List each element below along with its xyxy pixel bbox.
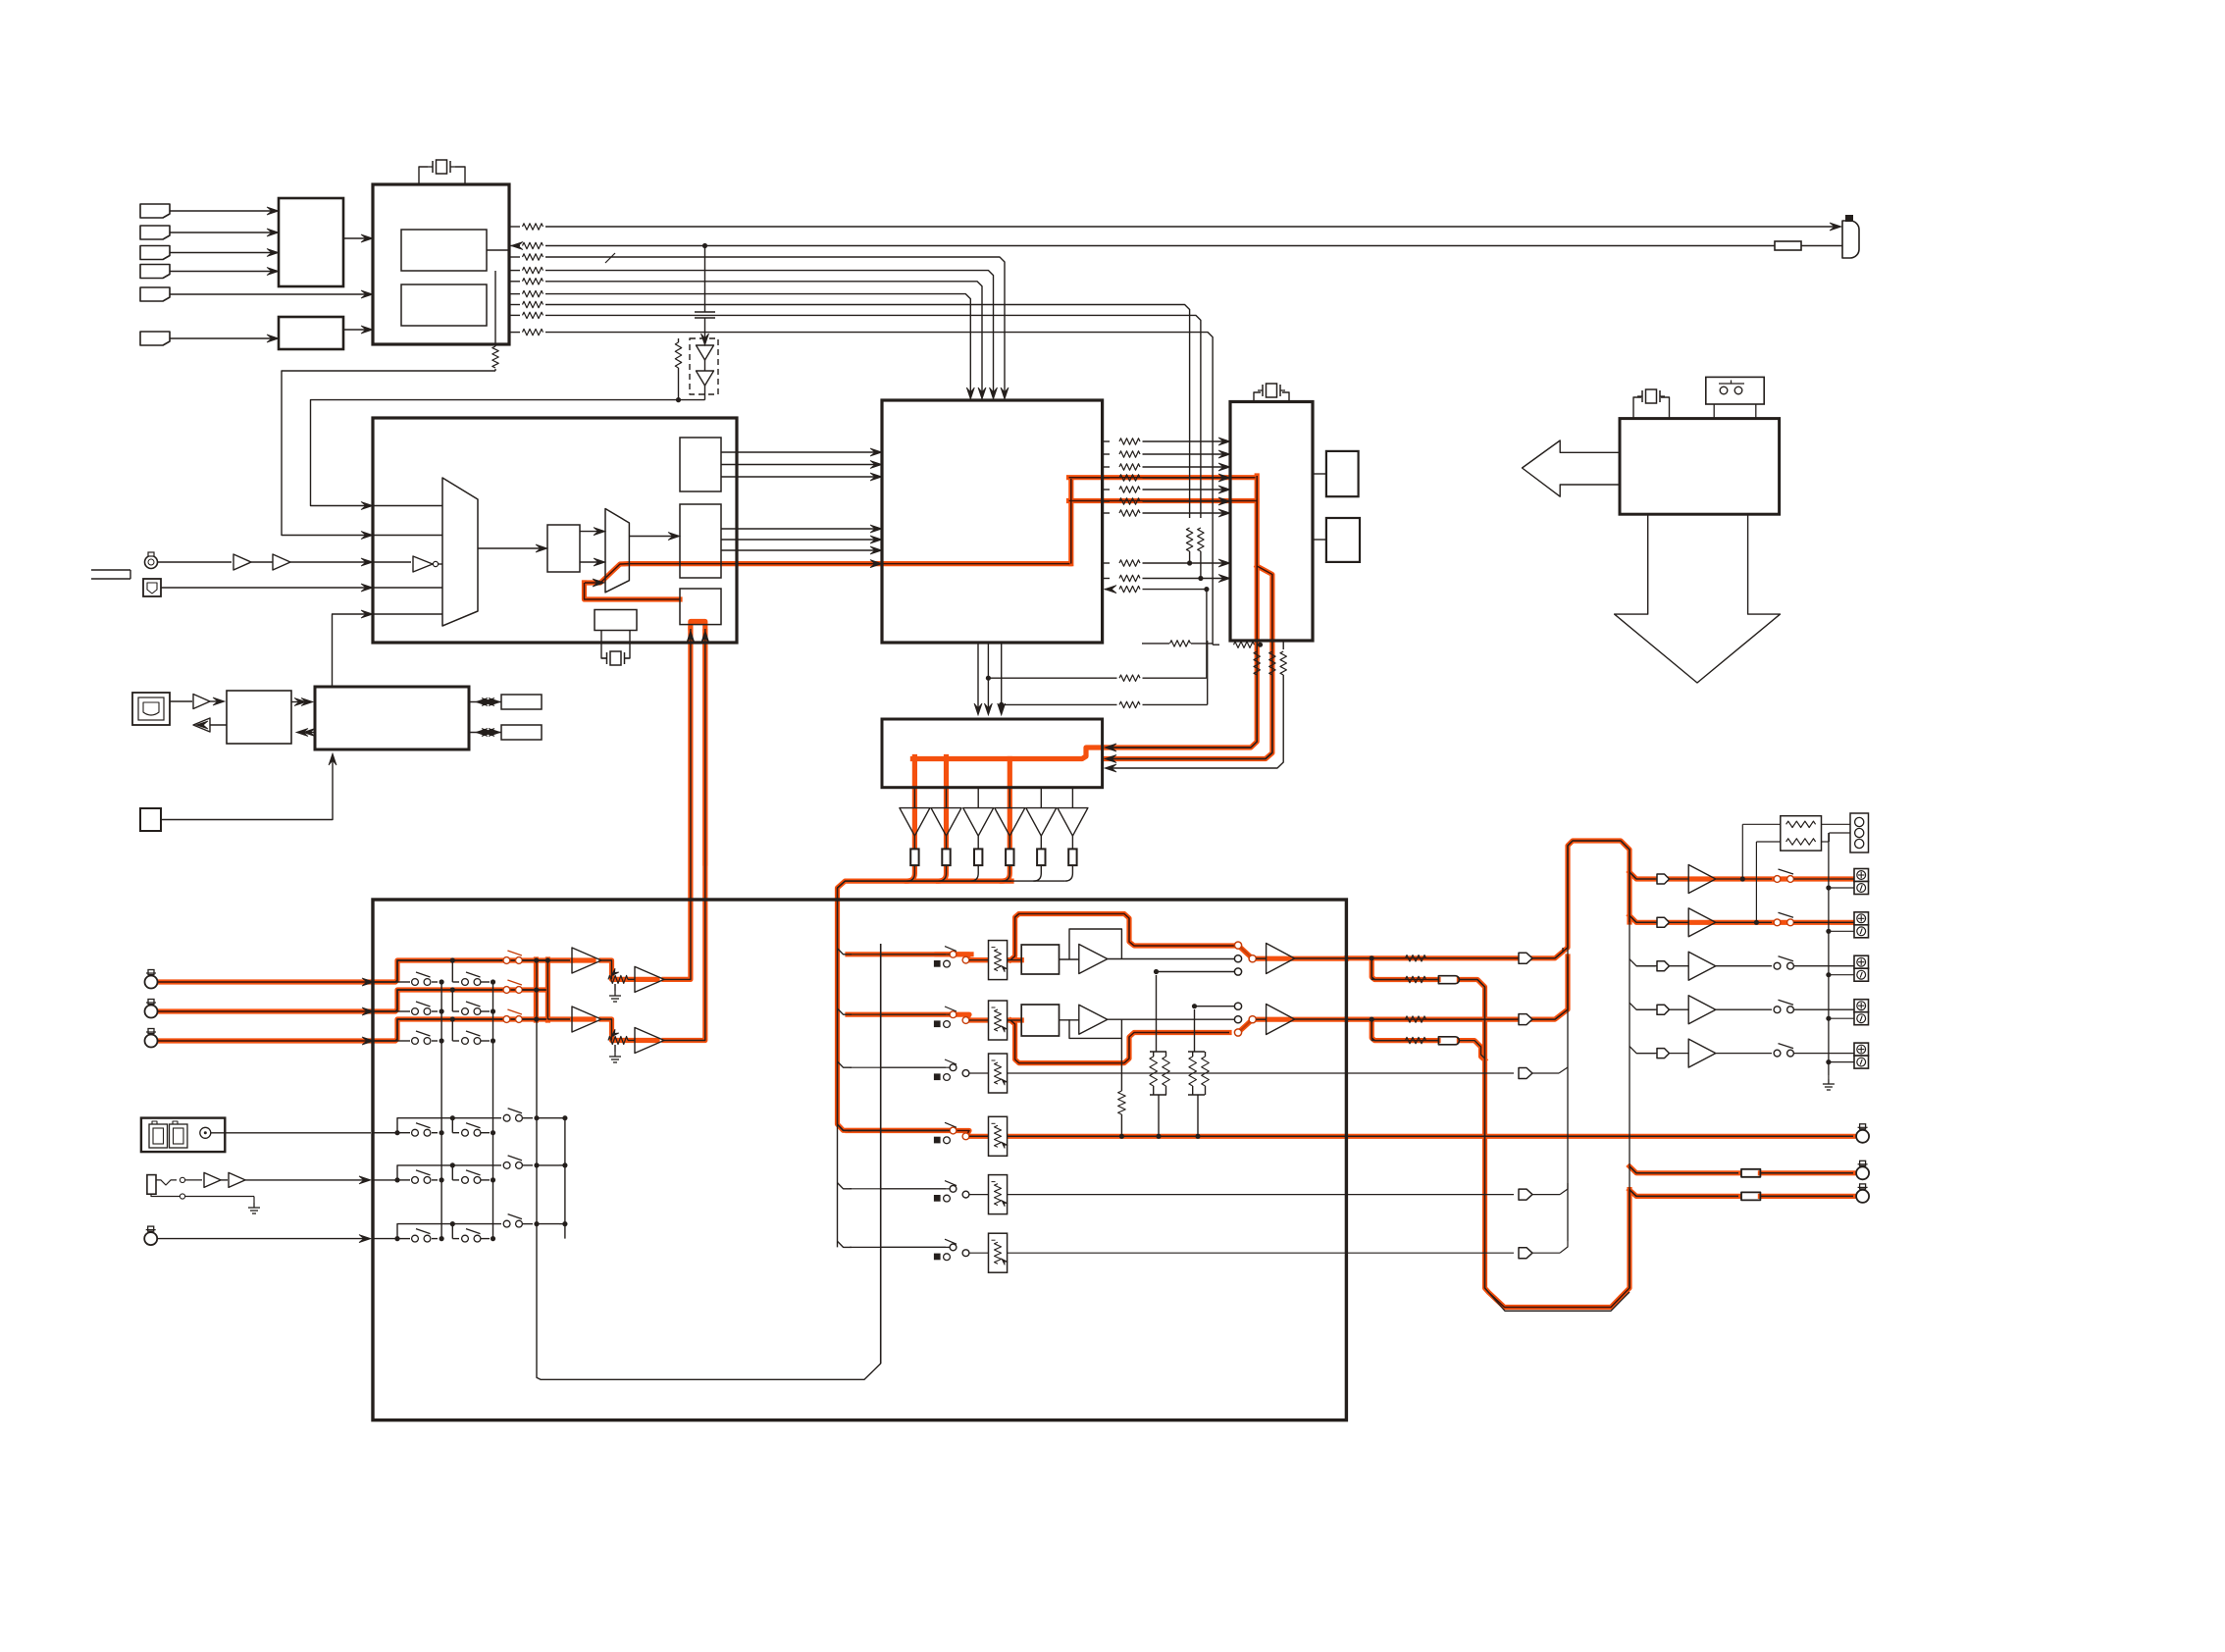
auxrow1 switch col2 bbox=[462, 1129, 469, 1136]
connector tag CN3 bbox=[140, 246, 170, 260]
impedance tap L bbox=[1741, 824, 1743, 879]
HP R servo block bbox=[1008, 1019, 1022, 1021]
orange rowB ferrite tail bbox=[1459, 1041, 1484, 1060]
speaker row 3 bbox=[1636, 965, 1657, 967]
speaker terminal 1 bbox=[1854, 869, 1869, 882]
orange in row1 bbox=[158, 960, 572, 982]
orange spk busA bbox=[534, 959, 539, 1020]
ctrl side block 2 bbox=[501, 725, 542, 740]
orange preamp L bbox=[548, 957, 594, 962]
orange preamp R bbox=[547, 1016, 594, 1021]
bus line L2 bbox=[545, 245, 1775, 247]
attenuator row 1 switch bbox=[881, 954, 946, 955]
DAC crystal X2 bbox=[1258, 384, 1285, 397]
impedance resistor box bbox=[1781, 816, 1822, 851]
audio selector IC box bbox=[373, 418, 737, 643]
record bus corners bbox=[838, 949, 853, 955]
MCU inner register B bbox=[401, 284, 487, 326]
row1 dots bbox=[440, 979, 444, 984]
headphone send wires bbox=[664, 629, 691, 979]
speaker minus wire 2 bbox=[1829, 930, 1854, 932]
rec out jack L bbox=[1856, 1124, 1869, 1143]
diode D1 bbox=[697, 345, 714, 360]
orange pot R bbox=[601, 1019, 657, 1041]
bus line L4 bbox=[545, 271, 994, 396]
power down arrow bbox=[1615, 514, 1781, 683]
speaker select terminal bbox=[1850, 813, 1869, 852]
row A branch bbox=[1371, 958, 1401, 980]
orange pot L bbox=[601, 960, 657, 979]
auxrow2 tail bbox=[537, 1164, 559, 1166]
servo-mech wires bbox=[291, 701, 301, 703]
optical in TOSLINK bbox=[143, 579, 161, 596]
attenuator row 1 box bbox=[989, 941, 1008, 980]
speaker driver triangles bbox=[913, 788, 915, 808]
monitor wire bbox=[211, 1132, 371, 1134]
orange row2 lever bbox=[1238, 1019, 1346, 1032]
speaker minus wire 4 bbox=[1829, 1017, 1854, 1019]
speaker terminal 5 bbox=[1854, 1043, 1869, 1056]
orange 3D loop bbox=[585, 583, 681, 599]
orange rec L tail bbox=[1760, 1170, 1853, 1175]
impedance tap R bbox=[1755, 842, 1757, 923]
DSP pre block bbox=[547, 525, 580, 572]
sub box bbox=[279, 317, 343, 349]
analog in jack 1 bbox=[145, 970, 158, 989]
aux row5 tail bbox=[1008, 1194, 1514, 1196]
orange fuse tail 2 bbox=[939, 865, 947, 881]
diode pack dashed box bbox=[690, 338, 718, 394]
DSP aux line B bbox=[1103, 578, 1110, 580]
preamp SP R bbox=[547, 1018, 570, 1020]
orange path DAC R down bbox=[1105, 566, 1272, 759]
servo box bbox=[227, 691, 291, 744]
connector tag CN4 bbox=[140, 265, 170, 279]
mech buffers bbox=[170, 700, 192, 702]
input row 1 jog bbox=[373, 960, 545, 982]
wire from mech controller bbox=[333, 614, 372, 687]
crystal X1 bbox=[428, 160, 455, 174]
auxrow3 col2 feed bbox=[451, 1224, 453, 1239]
mech icon bbox=[132, 693, 170, 725]
orange path DAC L down bbox=[1105, 476, 1257, 748]
bus line L1 bbox=[545, 226, 1838, 228]
DAC feedback wire bbox=[1207, 641, 1209, 704]
row2 switch col1 bbox=[412, 1008, 419, 1015]
power crystal bbox=[1637, 389, 1665, 403]
HP R amp out wire bbox=[1108, 1018, 1235, 1020]
dark wire overlays bbox=[158, 476, 1853, 1308]
HP L servo block bbox=[1008, 959, 1022, 961]
row2 col2 feed bbox=[451, 990, 453, 1011]
buffer A1 bbox=[233, 554, 251, 570]
mux out wire bbox=[478, 547, 544, 549]
DSP aux line A bbox=[1103, 562, 1110, 564]
auxrow2 switch col1 bbox=[412, 1177, 419, 1184]
HP R switch bbox=[1234, 1003, 1241, 1009]
wire optical to selector bbox=[161, 587, 371, 589]
aux row 2 jog bbox=[373, 1165, 501, 1180]
orange path DAC R in bbox=[1069, 498, 1258, 503]
auxrow2 col2 feed bbox=[451, 1165, 453, 1180]
orange rec stub R bbox=[1630, 1190, 1738, 1196]
orange rowB branch bbox=[1371, 1019, 1438, 1041]
auxrow2 switch col3 bbox=[503, 1162, 510, 1169]
orange HP send L bbox=[664, 629, 691, 979]
matrix bus 2 bbox=[492, 982, 494, 1239]
wire keybox to MCU bbox=[343, 237, 371, 239]
connector tag CN6 bbox=[140, 332, 170, 345]
analog in jack 2 bbox=[145, 1000, 158, 1018]
orange in row3 bbox=[158, 1019, 546, 1041]
HP L amp2 bbox=[1256, 957, 1266, 959]
wire into selector bbox=[290, 561, 371, 563]
L8 pull resistor bbox=[1198, 528, 1204, 551]
orange row1 lever bbox=[1238, 946, 1346, 959]
auxrow3 tail bbox=[537, 1223, 559, 1225]
selector rect C bbox=[680, 589, 721, 625]
matrix bus 3 long bbox=[537, 944, 881, 1379]
3D mux trapezoid bbox=[605, 509, 629, 593]
volume pot knob bbox=[145, 556, 158, 569]
HP R NC wire bbox=[1195, 1006, 1235, 1007]
minus bus ground bbox=[1828, 1075, 1830, 1079]
fuse resistors bbox=[910, 849, 918, 865]
power crystal wiring bbox=[1633, 397, 1641, 419]
DAC out L wire bbox=[1256, 641, 1258, 649]
driver bus corner bbox=[837, 888, 839, 900]
orange row2 att line bbox=[848, 1014, 1021, 1020]
attenuator row 4 switch bbox=[881, 1130, 946, 1132]
row3 col2 feed bbox=[451, 1019, 453, 1041]
orange drv stub 2 bbox=[944, 757, 949, 850]
auxrow3 switch col3 bbox=[503, 1220, 510, 1227]
orange in row2 bbox=[158, 990, 546, 1011]
attenuator row 3 switch bbox=[881, 1066, 946, 1068]
arch vertical bbox=[1568, 841, 1630, 1288]
row2 switch col2 bbox=[462, 1008, 469, 1015]
rec out line wire bbox=[1008, 1135, 1853, 1137]
wires rectA to DSP bbox=[721, 451, 879, 453]
attenuator row 2 switch bbox=[881, 1013, 946, 1015]
orange path SW jog bbox=[912, 748, 1105, 759]
capacitor C1 bbox=[695, 311, 715, 313]
U loop bottom bbox=[1485, 1288, 1630, 1311]
matrix bus 4 bbox=[564, 1118, 566, 1239]
wire cap branch bbox=[704, 246, 706, 313]
row1 switch col1 bbox=[412, 979, 419, 986]
wires tags to key-matrix box bbox=[170, 210, 277, 212]
DSP IC box bbox=[882, 400, 1103, 643]
DAC out R wire bbox=[1271, 641, 1273, 649]
tray wire bbox=[161, 756, 333, 820]
connector tag CN1 bbox=[140, 204, 170, 218]
L9 series resistor bbox=[1213, 644, 1219, 645]
row1 switch col3 (orange) bbox=[499, 951, 533, 963]
rec feed chamfers bbox=[1630, 1166, 1738, 1173]
MCU inner register A bbox=[401, 230, 487, 271]
orange row1 sw bbox=[937, 955, 989, 960]
DAC side block 2 bbox=[1313, 539, 1326, 541]
tray switch bbox=[140, 808, 161, 831]
row1 switch col2 bbox=[462, 979, 469, 986]
connector tag CN2 bbox=[140, 226, 170, 239]
orange rowB out bbox=[1346, 956, 1568, 1019]
SPL volume pot bbox=[601, 960, 612, 979]
DAC crystal wiring bbox=[1254, 392, 1261, 402]
remote connector bbox=[1842, 221, 1859, 258]
L2 ferrite bead bbox=[1775, 241, 1801, 250]
DAC out mute wire bbox=[1282, 641, 1284, 649]
mech controller box bbox=[315, 687, 469, 749]
bus line L9 bbox=[545, 333, 1213, 645]
input mux trapezoid bbox=[442, 478, 478, 626]
orange path DSP riser bbox=[1068, 479, 1073, 564]
aux resistor wire bbox=[1142, 643, 1169, 645]
orange rowA ferrite tail bbox=[1459, 980, 1630, 1308]
EEPROM crystal bbox=[601, 631, 606, 659]
power switch box bbox=[1706, 377, 1764, 404]
auxrow2 dots bbox=[394, 1177, 399, 1182]
wire subbox to MCU bbox=[343, 329, 371, 331]
DAC IC box bbox=[1230, 402, 1313, 642]
MCU inner wire bbox=[487, 249, 509, 251]
MCU system control IC bbox=[373, 184, 509, 344]
orange row1 bypass bbox=[1010, 914, 1235, 960]
HP L feedback loop bbox=[1069, 929, 1121, 959]
driver sum wire bbox=[845, 880, 1064, 882]
aux row 3 jog bbox=[373, 1224, 501, 1239]
monitor bus vertical bbox=[880, 944, 882, 1364]
speaker feed chamfers bbox=[1630, 872, 1655, 879]
HP R feedback loop bbox=[1069, 1019, 1121, 1038]
HP L switch bbox=[1234, 942, 1241, 949]
rec out jack R bbox=[1856, 1161, 1869, 1179]
record bus vertical bbox=[837, 900, 839, 1247]
orange spk row1 bbox=[1630, 872, 1854, 879]
row1 col2 feed bbox=[451, 960, 453, 982]
impedance out wires bbox=[1822, 823, 1851, 825]
row3 switch col1 bbox=[412, 1038, 419, 1045]
attenuator row 5 box bbox=[989, 1175, 1008, 1214]
crystal X1 wiring bbox=[419, 167, 428, 184]
speaker bus (orange) bbox=[546, 960, 548, 1019]
speaker row 1 bbox=[1636, 878, 1657, 880]
matrix bus 1 bbox=[440, 982, 442, 1239]
orange fuse tail 1 bbox=[906, 865, 914, 881]
orange 3D U bbox=[691, 622, 705, 629]
analog in jack 4 bbox=[144, 1226, 157, 1245]
connector tag CN5 bbox=[140, 287, 170, 301]
power amp block box bbox=[373, 900, 1346, 1420]
row A main bbox=[1346, 957, 1401, 959]
wire tag6 to box bbox=[170, 337, 277, 339]
orange rowA out bbox=[1346, 841, 1630, 958]
HP load resistors L bbox=[1156, 975, 1158, 1052]
mic sleeve wire bbox=[151, 1194, 180, 1196]
DSP to SW wires bbox=[977, 643, 979, 712]
orange drv stub 4 bbox=[1008, 759, 1012, 850]
3D mux out wire bbox=[630, 536, 677, 538]
jack4 wire bbox=[158, 1238, 370, 1240]
selector rect B bbox=[680, 504, 721, 578]
wire pot to buffers bbox=[158, 561, 232, 563]
AC arrow left bbox=[1523, 440, 1621, 496]
auxrow3 switch col1 bbox=[412, 1235, 419, 1242]
wire lineC loop bbox=[1206, 590, 1208, 679]
wires rectB to DSP bbox=[721, 528, 879, 530]
arrows into key box bbox=[267, 207, 279, 215]
headphone plug icon bbox=[91, 569, 130, 571]
wire tag5 to MCU bbox=[170, 293, 371, 295]
orange rec bus bbox=[838, 881, 1012, 1130]
amp SP R2 bbox=[635, 1028, 664, 1054]
diode return wire bbox=[311, 400, 705, 506]
speaker terminal 2 bbox=[1854, 912, 1869, 925]
bus line L5 bbox=[545, 282, 982, 396]
mic buffers bbox=[204, 1172, 221, 1187]
row3 switch col2 bbox=[462, 1038, 469, 1045]
power supply box bbox=[1620, 419, 1780, 515]
orange signal highlight layer bbox=[158, 476, 1854, 1308]
auxrow1 switch col1 bbox=[412, 1129, 419, 1136]
speaker minus wire 5 bbox=[1829, 1061, 1854, 1063]
monitor box bbox=[141, 1118, 225, 1153]
bus resistors R-array bbox=[523, 224, 543, 230]
rec out ferrites bbox=[1741, 1169, 1760, 1177]
HP load resistors R bbox=[1194, 1009, 1196, 1052]
orange path selector to DSP bbox=[585, 564, 1070, 583]
buffer A2 bbox=[273, 554, 290, 570]
auxrow1 dots bbox=[394, 1130, 399, 1135]
L7 pull resistor bbox=[1186, 528, 1192, 551]
HP R amp2 bbox=[1256, 1018, 1266, 1020]
analog in jack 3 bbox=[145, 1029, 158, 1048]
aux row3 tail bbox=[1008, 1072, 1514, 1074]
row B main bbox=[1346, 1018, 1401, 1020]
EEPROM block bbox=[595, 610, 637, 631]
attenuator row 5 switch bbox=[881, 1188, 946, 1190]
DSP aux line C bbox=[1105, 586, 1116, 594]
junction L2 bbox=[702, 243, 707, 248]
auxrow1 col2 feed bbox=[451, 1118, 453, 1133]
aux row 1 jog bbox=[373, 1118, 501, 1133]
rec out wires bbox=[1760, 1172, 1853, 1174]
3D loop arrow bbox=[593, 579, 604, 587]
orange row2 bypass bbox=[1010, 1020, 1229, 1063]
DSP-DAC data lines bbox=[1103, 440, 1110, 442]
inverter U2 bbox=[373, 561, 411, 563]
preamp SP L bbox=[537, 959, 570, 961]
orange row4 line bbox=[848, 1131, 1853, 1137]
row2 switch col3 (orange) bbox=[499, 980, 533, 993]
attenuator row 2 box bbox=[989, 1001, 1008, 1040]
orange spk row2 bbox=[1630, 915, 1854, 922]
auxrow2 switch col2 bbox=[462, 1177, 469, 1184]
speaker minus wire 1 bbox=[1829, 887, 1854, 889]
attenuator row 6 box bbox=[989, 1233, 1008, 1272]
attenuator row 3 box bbox=[989, 1054, 1008, 1093]
orange HP ret R bbox=[702, 632, 707, 863]
rec tap resistor bbox=[1120, 1038, 1122, 1091]
speaker row 2 bbox=[1636, 921, 1657, 923]
key matrix box bbox=[279, 198, 343, 286]
diode D2 bbox=[697, 371, 714, 386]
speaker minus wire 3 bbox=[1829, 974, 1854, 976]
muting switch IC box bbox=[882, 719, 1103, 788]
DAC side block 1 bbox=[1313, 473, 1326, 475]
ctrl side block 1 bbox=[501, 695, 542, 709]
orange spk bus bbox=[545, 959, 550, 1020]
selector rect A bbox=[680, 438, 721, 491]
mic jack bbox=[147, 1175, 156, 1195]
bus line L3 bbox=[545, 257, 1005, 396]
HP L amp bbox=[1079, 945, 1108, 974]
orange fuse tail 4 bbox=[1002, 865, 1009, 881]
orange drv stub 1 bbox=[912, 757, 917, 850]
row B branch bbox=[1371, 1019, 1401, 1041]
bus line L6 bbox=[545, 294, 970, 396]
selector input wires bbox=[373, 505, 442, 507]
MCU ctrl wire bbox=[494, 369, 496, 371]
speaker row 5 bbox=[1636, 1053, 1657, 1055]
wires pre to 3D mux bbox=[580, 531, 602, 533]
record row stubs bbox=[850, 954, 950, 955]
row3 dots bbox=[440, 1038, 444, 1043]
resistor R diode bbox=[678, 338, 680, 342]
speaker terminal 3 bbox=[1854, 955, 1869, 968]
minus bus bbox=[1828, 833, 1830, 1075]
L2 tail bbox=[1801, 245, 1842, 247]
orange rec stub L bbox=[1630, 1166, 1738, 1173]
HP R amp bbox=[1079, 1005, 1108, 1034]
input row 2 jog bbox=[373, 990, 545, 1011]
attenuator row 4 box bbox=[989, 1116, 1008, 1156]
auxrow1 switch col3 bbox=[503, 1114, 510, 1121]
auxrow3 dots bbox=[394, 1236, 399, 1241]
bus line L7 bbox=[545, 305, 1190, 519]
HP L NC wire bbox=[1157, 971, 1235, 973]
orange HP send R bbox=[664, 632, 705, 1041]
aux row6 tail bbox=[1008, 1252, 1514, 1254]
row2 dots bbox=[440, 1008, 444, 1013]
amp SP L2 bbox=[635, 966, 664, 992]
input row 3 jog bbox=[373, 1019, 545, 1041]
arrow into diode pack bbox=[701, 334, 709, 345]
rec out jack 3 bbox=[1856, 1184, 1869, 1203]
orange rec R tail bbox=[1760, 1194, 1853, 1199]
orange path DAC L in bbox=[1069, 475, 1256, 480]
fuse tails bbox=[906, 865, 914, 881]
auxrow1 tail bbox=[537, 1117, 559, 1119]
attenuator row 6 switch bbox=[881, 1246, 946, 1248]
HP L amp out wire bbox=[1108, 958, 1235, 960]
orange rowA branch bbox=[1371, 958, 1438, 980]
speaker row 4 bbox=[1636, 1008, 1657, 1010]
SPR volume pot bbox=[601, 1019, 612, 1041]
row3 switch col3 (orange) bbox=[499, 1009, 533, 1022]
bus line L8 bbox=[545, 315, 1201, 518]
speaker terminal 4 bbox=[1854, 1000, 1869, 1012]
orange att row1 bbox=[848, 955, 1021, 960]
orange row1 att out bbox=[1008, 957, 1022, 962]
auxrow3 switch col2 bbox=[462, 1235, 469, 1242]
